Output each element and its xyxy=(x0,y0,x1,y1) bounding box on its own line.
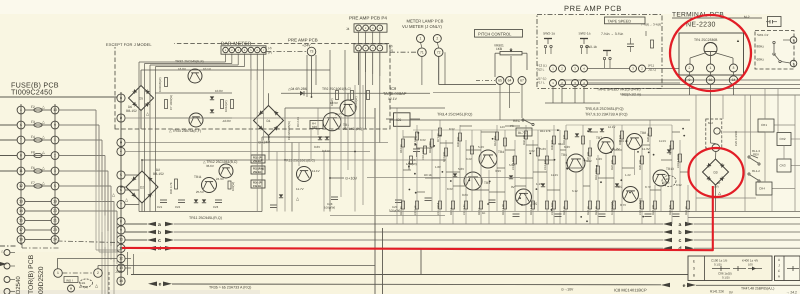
wire pot legs down xyxy=(494,53,496,77)
bus a right out-arrow xyxy=(685,222,694,227)
svg-text:b: b xyxy=(158,230,161,236)
svg-text:11.5V: 11.5V xyxy=(659,139,666,143)
bus b right out-arrow xyxy=(685,230,694,235)
svg-text:C23: C23 xyxy=(213,205,219,209)
wire lamp pins link xyxy=(421,43,422,48)
diode D10 xyxy=(210,109,214,112)
svg-text:CR1: CR1 xyxy=(761,123,767,127)
junction dot xyxy=(596,165,598,167)
fuse F8 row xyxy=(25,155,51,157)
svg-text:11.2V: 11.2V xyxy=(551,173,558,177)
connector pin 65 xyxy=(496,77,504,85)
wire dashdot pitch row xyxy=(476,80,495,82)
wire dashed drop x109 xyxy=(108,272,110,294)
svg-text:F8: F8 xyxy=(31,150,35,154)
transistor TR8 xyxy=(627,134,643,150)
svg-text:2: 2 xyxy=(97,271,99,275)
svg-text:METER LAMP PCB: METER LAMP PCB xyxy=(407,19,444,24)
connector pin 17 xyxy=(17,226,25,234)
svg-text:R141 22K: R141 22K xyxy=(710,290,725,294)
svg-text:2: 2 xyxy=(436,37,438,41)
svg-text:J393: J393 xyxy=(115,270,122,274)
bus d left out-arrow xyxy=(165,246,174,251)
wire pitch drops to amp xyxy=(499,85,501,121)
svg-text:7-½in → 3-¾in: 7-½in → 3-¾in xyxy=(601,32,623,36)
diode small xyxy=(667,149,671,152)
wire interconnect xyxy=(614,149,622,151)
resistor box r3 xyxy=(231,100,234,109)
wire center vertical xyxy=(488,170,490,224)
connector pin 3 right xyxy=(51,167,59,175)
svg-text:F2: F2 xyxy=(31,105,35,109)
wire center vertical xyxy=(402,130,404,224)
connector pin P17-4 xyxy=(377,45,383,51)
wire pin4 branch xyxy=(125,151,370,153)
svg-text:R8 100K: R8 100K xyxy=(443,151,446,162)
connector pin J12-3 xyxy=(572,65,579,72)
bus a left out-arrow xyxy=(165,222,174,227)
bus c right in-arrow xyxy=(663,238,672,243)
transistor TR12 xyxy=(219,164,233,178)
svg-text:D2: D2 xyxy=(140,185,144,189)
svg-text:C7 1000(W): C7 1000(W) xyxy=(169,95,173,110)
svg-text:1.2V: 1.2V xyxy=(596,157,602,161)
svg-text:C20 3.3/100: C20 3.3/100 xyxy=(734,130,738,146)
svg-text:+24V: +24V xyxy=(302,43,311,47)
connector pin 21 xyxy=(51,217,59,225)
fuse F3 row xyxy=(25,124,51,126)
resistor boxed R34 xyxy=(251,180,265,188)
wire terminal pin drops xyxy=(689,72,691,76)
junction dot xyxy=(529,153,531,155)
connector pin 10 right xyxy=(51,106,59,114)
svg-text:J12 L: J12 L xyxy=(537,68,545,72)
svg-text:R4 18K: R4 18K xyxy=(400,206,403,215)
wire interconnect xyxy=(440,142,453,144)
wire interconnect xyxy=(505,125,520,127)
junction dot xyxy=(648,152,650,154)
capacitor C28 xyxy=(331,196,338,198)
wire interconnect xyxy=(403,169,411,171)
wire center vertical xyxy=(553,125,555,224)
svg-text:M-2: M-2 xyxy=(708,121,713,125)
svg-text:11.3V: 11.3V xyxy=(642,147,650,151)
connector pin 5 right xyxy=(51,182,59,190)
wire fuse fanout xyxy=(59,124,99,126)
wire vertical x307 pitch drop xyxy=(306,55,308,97)
connector pin bar-meter 7 xyxy=(261,47,267,53)
svg-text:TOR(B) PCB: TOR(B) PCB xyxy=(28,254,35,294)
capacitor small xyxy=(513,213,520,215)
svg-text:R11 27K: R11 27K xyxy=(540,129,551,133)
resistor box center xyxy=(416,201,419,209)
wire right-band vertical xyxy=(575,172,577,224)
svg-text:P17 L: P17 L xyxy=(537,81,545,85)
svg-text:(W): (W) xyxy=(714,185,719,189)
junction dot xyxy=(566,162,568,164)
svg-text:25.5V: 25.5V xyxy=(196,190,204,194)
svg-text:8: 8 xyxy=(20,154,22,158)
wire rail y103 tape xyxy=(545,102,600,104)
resistor box center xyxy=(546,156,549,164)
svg-text:TR47,48 25BP05(A,L): TR47,48 25BP05(A,L) xyxy=(741,286,774,290)
svg-text:TR4: TR4 xyxy=(498,150,504,154)
capacitor sym anno2 xyxy=(733,268,746,270)
connector pin 10 main column xyxy=(117,235,125,243)
connector pin 6 left xyxy=(17,121,25,129)
wire left cluster rail y137 xyxy=(262,136,330,138)
connector pin 4 left xyxy=(17,106,25,114)
svg-text:TAPE SPEED VR1(3-3/4 in): TAPE SPEED VR1(3-3/4 in) xyxy=(597,88,641,92)
svg-text:TR35 ≈ 65 23A733 A (P,Q): TR35 ≈ 65 23A733 A (P,Q) xyxy=(209,286,251,290)
wire 72 drop to pitch row xyxy=(438,57,440,85)
wire fuse-col row 18-24 xyxy=(25,239,51,241)
svg-text:(J): (J) xyxy=(268,46,272,50)
bus d right in-arrow xyxy=(663,246,672,251)
resistor box center xyxy=(439,201,442,209)
junction dot xyxy=(682,128,684,130)
connector pin 12 left xyxy=(17,182,25,190)
dots fuse column xyxy=(120,97,122,99)
svg-text:RL7-1: RL7-1 xyxy=(518,131,527,135)
svg-text:20: 20 xyxy=(53,209,57,213)
bus d long line xyxy=(174,247,663,249)
wire J-box vertical x345 xyxy=(344,50,346,129)
fuse F7 row xyxy=(25,185,51,187)
junction dot xyxy=(442,171,444,173)
svg-text:4: 4 xyxy=(20,108,22,112)
connector pin 2 terminal xyxy=(686,64,694,72)
wire D3 bottom continue xyxy=(715,185,717,212)
svg-text:C22: C22 xyxy=(175,205,181,209)
junction dot xyxy=(586,220,588,222)
connector pin J12-2 xyxy=(559,65,566,72)
svg-text:REV: REV xyxy=(753,153,759,157)
svg-text:R22 10K: R22 10K xyxy=(611,159,614,170)
wire center vertical xyxy=(416,125,418,224)
resistor box center xyxy=(452,201,455,209)
svg-text:NE-2230: NE-2230 xyxy=(686,22,716,29)
connector pin inside M-2 xyxy=(714,128,720,134)
connector pin 9 main column xyxy=(117,226,125,234)
resistor box right-band xyxy=(641,156,644,164)
bus b long line xyxy=(174,231,663,233)
connector pin bar-meter 3 xyxy=(235,47,241,53)
resistor box center xyxy=(465,201,468,209)
svg-text:1000/35(W): 1000/35(W) xyxy=(158,77,162,92)
svg-text:TR11: TR11 xyxy=(194,175,202,179)
svg-text:IND I: IND I xyxy=(66,278,73,282)
svg-text:10: 10 xyxy=(53,108,57,112)
resistor box right col b xyxy=(351,91,354,100)
wire J393 pin12 branch xyxy=(125,258,131,260)
wire interconnect xyxy=(481,131,497,133)
wire center vertical xyxy=(514,140,516,211)
wire interconnect xyxy=(598,177,614,179)
wire long top bus y84.5 right section xyxy=(560,84,800,86)
wire mid cluster vertical x330 xyxy=(329,130,331,212)
svg-text:→ 24.2: → 24.2 xyxy=(786,291,797,294)
wire pitch feed lower xyxy=(433,92,520,94)
wire pot left leg xyxy=(495,52,500,54)
wire pin3 branch xyxy=(125,142,388,144)
capacitor C22 xyxy=(178,199,185,201)
connector pin 11 left xyxy=(17,167,25,175)
connector pin 2 right xyxy=(51,152,59,160)
wire pin5 branch xyxy=(125,174,139,176)
svg-text:(G)(R): (G)(R) xyxy=(662,182,669,185)
connector pin bl-4 xyxy=(4,289,10,294)
wire center vertical xyxy=(459,125,461,211)
connector pin P17-1 xyxy=(356,45,362,51)
wire long top bus y88.5 right section xyxy=(600,88,800,90)
junction dot xyxy=(468,179,470,181)
resistor box center xyxy=(424,146,427,154)
resistor tape col xyxy=(651,40,654,48)
resistor R31 xyxy=(228,181,231,189)
svg-text:7: 7 xyxy=(20,138,22,142)
wire interconnect xyxy=(417,191,425,193)
svg-text:R24 10K: R24 10K xyxy=(652,204,655,215)
svg-text:△: △ xyxy=(42,166,45,170)
wire interconnect xyxy=(505,149,515,151)
svg-text:△ TR33 23B764(E,F): △ TR33 23B764(E,F) xyxy=(169,129,201,133)
connector pin bar-meter 4 xyxy=(242,47,248,53)
wire center vertical xyxy=(439,120,441,224)
resistor box right-band xyxy=(679,154,682,162)
resistor box center xyxy=(471,146,474,154)
diode sym anno xyxy=(752,267,756,271)
fuse F4 row xyxy=(25,139,51,141)
resistor R4 620 xyxy=(310,121,323,129)
wire center vertical xyxy=(396,108,398,224)
svg-text:9: 9 xyxy=(54,123,56,127)
svg-text:8.9V: 8.9V xyxy=(449,127,455,131)
wire relay switch xyxy=(524,120,532,124)
label box TAPE SPEED xyxy=(605,17,646,24)
diode D13 xyxy=(202,199,206,202)
svg-text:3: 3 xyxy=(733,66,735,70)
wire D2 top vertex xyxy=(141,160,143,171)
wire fuse fanout xyxy=(59,155,105,157)
wire pin2 branch xyxy=(125,117,375,119)
connector pin 6 main column xyxy=(117,186,125,194)
wire +10V rail y177 xyxy=(367,177,520,179)
wire center rail y120 xyxy=(390,119,560,121)
svg-text:1KB: 1KB xyxy=(496,47,502,51)
wire bottom rail y274.5 xyxy=(131,274,688,276)
wire fanout cascade verticals xyxy=(95,110,97,250)
svg-text:R13 3.3K: R13 3.3K xyxy=(530,204,533,215)
svg-text:73: 73 xyxy=(310,50,314,54)
svg-text:R24 1K: R24 1K xyxy=(595,206,598,215)
wire +10V stub xyxy=(330,177,344,179)
dashed box TAPE SPEED section xyxy=(537,15,662,89)
switch SW2-1a second xyxy=(583,38,585,44)
connector pin bl-1 xyxy=(4,250,10,256)
svg-text:TR8: TR8 xyxy=(640,131,646,135)
junction dot xyxy=(683,135,685,137)
wire bar-meter drop xyxy=(263,54,265,71)
junction dot xyxy=(536,188,538,190)
svg-text:67: 67 xyxy=(520,79,524,83)
resistor R30 xyxy=(175,179,178,189)
resistor box center xyxy=(416,132,419,140)
resistor box center xyxy=(439,128,442,136)
svg-text:0V: 0V xyxy=(511,185,515,189)
svg-text:C9 0.12: C9 0.12 xyxy=(414,205,417,215)
svg-text:TAPE SPEED: TAPE SPEED xyxy=(608,19,632,23)
wire center vertical xyxy=(537,130,539,211)
resistor box right col c xyxy=(367,91,370,100)
svg-text:TR5,6,8 25C945L(P,Q): TR5,6,8 25C945L(P,Q) xyxy=(585,107,624,111)
connector pin 24 xyxy=(51,236,59,244)
svg-text:15: 15 xyxy=(19,219,23,223)
wire pin73 drop xyxy=(311,56,313,97)
wire D1 top xyxy=(268,93,270,105)
svg-text:66: 66 xyxy=(709,78,713,82)
wire right rail y132 xyxy=(723,131,765,133)
wire interconnect xyxy=(566,167,583,169)
resistor box center xyxy=(537,148,540,156)
transistor TR7 xyxy=(598,138,614,154)
svg-text:11.1V: 11.1V xyxy=(312,169,320,173)
connector pin bar-meter 5 xyxy=(248,47,254,53)
capacitor sym anno3 xyxy=(787,268,799,270)
wire interconnect xyxy=(583,185,590,187)
bus c left stub from connector xyxy=(125,239,147,241)
wire interconnect xyxy=(672,131,680,133)
connector pin P17-3 xyxy=(572,80,579,87)
diode small xyxy=(541,183,545,186)
wire center vertical xyxy=(546,140,548,224)
svg-text:IC8 MC14011BCP: IC8 MC14011BCP xyxy=(614,288,647,293)
svg-text:R26 10K: R26 10K xyxy=(639,159,642,170)
svg-text:R20 1K: R20 1K xyxy=(587,206,590,215)
label underline TERMINAL PCB xyxy=(672,17,762,19)
wire CR1 link xyxy=(774,124,795,126)
transistor TR1b xyxy=(323,113,341,131)
svg-text:11.7V: 11.7V xyxy=(296,187,304,191)
wire rail y160 center-left xyxy=(262,159,445,161)
wire center vertical xyxy=(480,130,482,224)
svg-text:△: △ xyxy=(42,135,45,139)
connector pin M2 xyxy=(94,269,103,278)
wire bottom vertical x382.5 xyxy=(382,228,384,294)
wire left cluster verticals xyxy=(268,137,270,160)
svg-text:(J): (J) xyxy=(389,44,393,48)
wire center vertical xyxy=(431,130,433,211)
connector pin 73 xyxy=(307,47,316,56)
svg-text:2: 2 xyxy=(689,66,691,70)
wire center rail y211.5 right xyxy=(560,211,690,213)
wire dash top link xyxy=(645,31,647,36)
wire bundle extension v2 xyxy=(104,247,106,294)
svg-text:3.9V: 3.9V xyxy=(495,169,501,173)
diode D11 xyxy=(194,199,198,202)
svg-text:0.7V: 0.7V xyxy=(620,203,626,207)
svg-text:SW2-1a: SW2-1a xyxy=(543,31,555,35)
svg-text:1.8V: 1.8V xyxy=(435,165,441,169)
connector pin bar-meter 2 xyxy=(229,47,235,53)
svg-text:VR2(7-1/2 in): VR2(7-1/2 in) xyxy=(620,92,641,96)
svg-text:65: 65 xyxy=(498,79,502,83)
wire bl stub xyxy=(10,279,15,281)
svg-text:71: 71 xyxy=(420,50,424,54)
potentiometer VR901 xyxy=(500,52,522,55)
svg-text:64: 64 xyxy=(508,79,512,83)
svg-text:2W 6Ω: 2W 6Ω xyxy=(253,171,262,174)
diode small xyxy=(509,175,513,178)
wire pin66 down to D3 xyxy=(710,84,712,143)
wire center vertical xyxy=(465,140,467,224)
transistor TR5 xyxy=(516,189,532,205)
connector pin bl-3 xyxy=(4,277,10,283)
wire right-band vertical xyxy=(597,155,599,224)
wire preamp rail y93.3 xyxy=(281,92,430,94)
wire right interconnect y155 xyxy=(751,155,759,158)
wire right-section rail y211.5 xyxy=(688,211,800,213)
wire right-band vertical xyxy=(679,140,681,211)
svg-text:100µ(W): 100µ(W) xyxy=(389,209,400,213)
capacitor small xyxy=(425,197,432,199)
svg-text:14: 14 xyxy=(119,279,123,283)
svg-text:0.6V: 0.6V xyxy=(447,187,453,191)
junction dot xyxy=(489,181,491,183)
svg-text:1.2V: 1.2V xyxy=(625,173,631,177)
svg-text:F6: F6 xyxy=(31,166,35,170)
svg-text:5.0V: 5.0V xyxy=(509,163,515,167)
connector pin P17-3 xyxy=(370,45,376,51)
svg-text:7: 7 xyxy=(120,203,122,207)
switch SW1 lever xyxy=(773,44,775,52)
svg-text:PRE AMP PCB: PRE AMP PCB xyxy=(564,4,622,13)
wire J-box internal rail2 xyxy=(155,92,232,94)
diode D14 xyxy=(279,194,283,197)
svg-text:PITCH CONTROL: PITCH CONTROL xyxy=(478,31,512,36)
wire center vertical xyxy=(559,130,561,224)
svg-text:D2540: D2540 xyxy=(15,276,22,294)
wire bar-meter drop xyxy=(225,54,227,62)
wire interconnect xyxy=(417,147,432,149)
wire fuse fanout xyxy=(59,201,114,203)
wire D2 bottom vertex xyxy=(141,203,143,212)
capacitor sym anno1 xyxy=(712,268,730,270)
wire center vertical xyxy=(496,125,498,211)
wire vertical x316 xyxy=(315,55,317,85)
svg-text:12: 12 xyxy=(19,184,23,188)
bus b right tail line xyxy=(694,231,800,233)
wire bundle extension v1 xyxy=(101,232,103,294)
connector pin M1 xyxy=(54,269,63,278)
wire pin9 down xyxy=(689,84,691,95)
junction dot xyxy=(414,173,416,175)
wire right-band vertical xyxy=(621,125,623,211)
diode D7 xyxy=(318,136,322,139)
resistor box center xyxy=(410,156,413,164)
connector pin J4-1 xyxy=(356,25,362,31)
svg-text:R15 2K: R15 2K xyxy=(619,139,628,143)
wire interconnect xyxy=(560,149,566,151)
svg-text:1: 1 xyxy=(54,138,56,142)
svg-text:R5 10K: R5 10K xyxy=(408,161,411,170)
wire connector column rail x121 xyxy=(120,92,122,276)
relay contact box CR2 xyxy=(777,133,791,146)
connector pin lamp-2 xyxy=(433,35,441,43)
svg-text:13: 13 xyxy=(19,200,23,204)
wire tape speed drops xyxy=(604,60,606,68)
svg-text:1: 1 xyxy=(57,271,59,275)
